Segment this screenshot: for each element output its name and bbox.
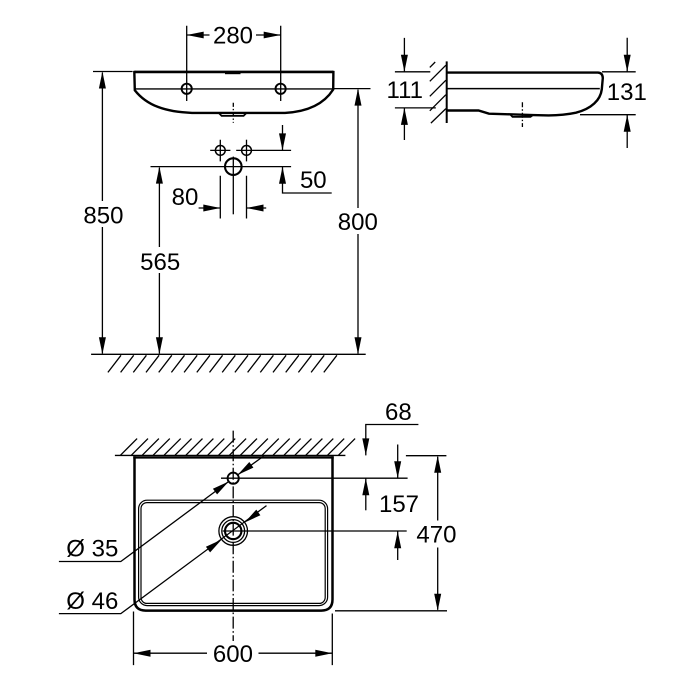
dim 600 arrows — [134, 650, 333, 657]
dim 600 extension lines — [134, 612, 333, 666]
svg-text:Ø 46: Ø 46 — [66, 588, 118, 615]
dim 565 arrows — [156, 167, 163, 355]
dim 68 shelf and stem — [366, 425, 419, 456]
dim 131 extension lines — [580, 72, 636, 115]
dim 280 arrows — [187, 32, 281, 39]
side wall line — [446, 61, 448, 123]
faucet hole left ticks — [210, 140, 230, 162]
dim 470 bottom extension line — [335, 610, 447, 612]
dim 157 arrows — [394, 461, 401, 548]
plan inner rim inner line — [141, 503, 325, 604]
svg-text:50: 50 — [300, 167, 327, 194]
svg-text:280: 280 — [213, 23, 253, 50]
dim 131 arrows — [624, 55, 631, 132]
basin outline sides and bowl — [134, 71, 333, 113]
dim 800 extension line — [334, 88, 371, 90]
svg-text:850: 850 — [83, 203, 123, 230]
dim 280 extension lines — [187, 26, 281, 101]
dim 68 lower arrow stem — [365, 478, 367, 510]
dim 470 line — [437, 457, 439, 610]
plan drain inner circle — [225, 523, 241, 539]
centerline front upper — [232, 103, 234, 123]
plan centerline — [232, 431, 234, 641]
plan drain middle circle — [222, 520, 245, 543]
dim 111 arrows — [401, 55, 408, 125]
overflow slot mark — [225, 72, 241, 74]
side drain boss — [510, 114, 533, 117]
svg-text:565: 565 — [140, 249, 180, 276]
side centerline — [521, 102, 523, 127]
side wall hatching — [430, 62, 446, 123]
svg-text:80: 80 — [172, 184, 199, 211]
svg-text:157: 157 — [379, 491, 419, 518]
plan faucet crosshair / ext line — [221, 477, 408, 479]
faucet hole right tick vertical — [246, 140, 248, 162]
dim 50 top arrow stem — [282, 125, 284, 150]
dim 470 arrows — [434, 456, 441, 611]
dim 157 arrow stems — [397, 445, 399, 561]
dim 800 line — [357, 90, 359, 354]
plan wall hatching — [121, 439, 356, 456]
svg-text:111: 111 — [387, 77, 423, 104]
dim 111 arrow stems — [403, 38, 405, 140]
leader diameter 35 — [59, 456, 264, 561]
ground hatching — [108, 355, 337, 372]
dim 850 extension line — [93, 71, 133, 73]
plan faucet hole — [228, 473, 239, 484]
plan basin top edge — [133, 456, 333, 458]
tap big circle — [225, 158, 242, 175]
dim 565 line — [158, 168, 160, 354]
dim 800 arrows — [355, 89, 362, 355]
svg-text:131: 131 — [607, 79, 647, 106]
dim 131 arrow stems — [626, 38, 628, 148]
svg-text:470: 470 — [416, 521, 456, 548]
dim 80 arrows — [203, 205, 263, 212]
plan inner rim outer line — [139, 500, 328, 605]
mounting hole right — [276, 84, 286, 94]
dim 111 extension lines — [395, 72, 436, 108]
plan drain outer circle — [219, 517, 248, 546]
dim 80 line segments — [199, 207, 267, 209]
basin top edge — [134, 71, 333, 74]
leader 35 arrows — [213, 462, 254, 494]
dim 280 line — [187, 34, 281, 36]
tap circle vertical line down — [232, 157, 234, 215]
dim 600 line — [134, 652, 333, 654]
dim 50 arrows — [279, 133, 286, 183]
side profile — [447, 73, 603, 116]
plan basin outline — [135, 456, 333, 610]
plan wall line — [115, 454, 346, 456]
side rim line — [447, 88, 600, 90]
svg-text:Ø 35: Ø 35 — [66, 536, 118, 563]
extension line 50 top through right hole — [236, 149, 291, 151]
ground line — [91, 353, 366, 355]
leader 46 arrows — [206, 510, 261, 553]
plan drain crosshair / ext line — [223, 530, 407, 532]
mounting hole left — [182, 84, 192, 94]
svg-text:800: 800 — [338, 209, 378, 236]
dim 470 top extension shelf — [406, 455, 447, 457]
svg-text:68: 68 — [385, 399, 412, 426]
dim 850 line — [101, 73, 103, 354]
drain boss front — [219, 113, 247, 116]
dim 80 extension verticals — [220, 176, 246, 219]
tap circle horizontal crosshair / ext line 565-50 — [151, 166, 292, 168]
leader diameter 46 — [59, 506, 267, 614]
dim 50 bottom arrow stem and shelf — [283, 167, 332, 193]
svg-text:600: 600 — [213, 641, 253, 668]
dim 68 arrows — [362, 438, 369, 495]
rim line — [135, 88, 333, 90]
faucet hole left circle — [215, 146, 225, 156]
faucet hole right circle — [242, 146, 252, 156]
dim 850 arrows — [99, 72, 106, 355]
